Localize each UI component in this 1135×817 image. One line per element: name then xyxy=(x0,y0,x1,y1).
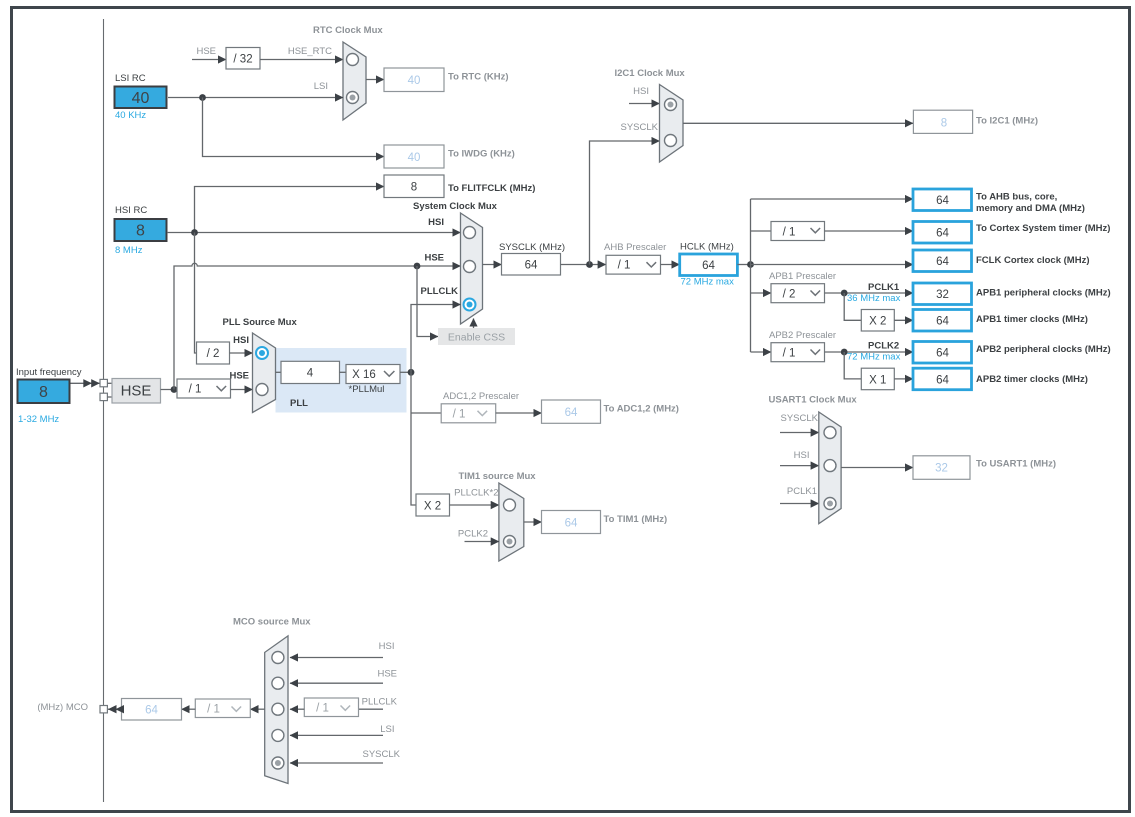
dropdown APB2 /1 xyxy=(771,343,825,362)
wire X1 to APB2 timer box xyxy=(894,378,913,380)
svg-text:APB1 Prescaler: APB1 Prescaler xyxy=(769,271,836,282)
svg-text:(MHz) MCO: (MHz) MCO xyxy=(37,702,88,713)
svg-text:4: 4 xyxy=(307,368,314,380)
svg-text:8: 8 xyxy=(39,384,48,401)
wire SYSCLK stub xyxy=(780,432,819,434)
wire HSI down to PLL /2 xyxy=(195,233,197,354)
radio TIM1 PLLCLK*2 xyxy=(504,499,516,511)
svg-text:1-32 MHz: 1-32 MHz xyxy=(18,414,59,425)
wire HSI to System Clock Mux xyxy=(167,232,461,234)
svg-text:*PLLMul: *PLLMul xyxy=(349,384,385,395)
svg-text:8: 8 xyxy=(136,223,145,240)
wire PCLK1 down to X2 xyxy=(844,293,861,320)
wire APB1 prescaler to PCLK1 box xyxy=(825,292,914,294)
svg-text:PCLK1: PCLK1 xyxy=(868,282,900,293)
wire /1 to MCO mux (leftward) xyxy=(290,708,304,710)
dropdown MCO /1 (disabled) xyxy=(195,699,250,718)
wire to APB2 prescaler xyxy=(751,351,772,353)
source box LSI 40 xyxy=(115,87,167,109)
mux MCO source Mux (mirrored) xyxy=(265,636,288,784)
svg-text:To RTC (KHz): To RTC (KHz) xyxy=(448,72,509,83)
svg-text:HSI: HSI xyxy=(428,217,444,228)
svg-text:USART1 Clock Mux: USART1 Clock Mux xyxy=(769,395,858,406)
svg-text:32: 32 xyxy=(935,463,948,475)
wire LSI to IWDG xyxy=(203,98,385,157)
svg-text:LSI: LSI xyxy=(314,81,328,92)
wire /32 to RTC mux xyxy=(260,59,343,61)
mux I2C1 Clock Mux xyxy=(660,85,684,163)
box APB1 peripheral value 32 xyxy=(913,283,972,305)
svg-text:HSE: HSE xyxy=(229,371,249,382)
svg-text:APB2 Prescaler: APB2 Prescaler xyxy=(769,330,836,341)
mux System Clock Mux xyxy=(461,213,483,324)
box PLL input value 4 xyxy=(281,361,340,383)
svg-text:X 1: X 1 xyxy=(869,375,886,387)
wire PLL mux to PLLMul input box xyxy=(276,371,282,373)
box Cortex timer value 64 xyxy=(913,222,972,244)
wire branch to ADC prescaler xyxy=(411,412,441,414)
box To USART1 value 32 xyxy=(913,456,970,480)
dropdown PLLMul X16 xyxy=(346,365,400,384)
wire HCLK to rail xyxy=(737,264,750,266)
radio sysmux HSI xyxy=(464,227,476,239)
radio sysmux PLLCLK (selected blue) xyxy=(464,299,476,311)
svg-text:64: 64 xyxy=(936,256,949,268)
svg-text:RTC Clock Mux: RTC Clock Mux xyxy=(313,25,383,36)
svg-text:APB2 peripheral clocks (MHz): APB2 peripheral clocks (MHz) xyxy=(976,344,1111,355)
node HCLK junction xyxy=(747,261,754,268)
svg-text:To IWDG (KHz): To IWDG (KHz) xyxy=(448,149,515,160)
dropdown Cortex /1 xyxy=(771,222,825,241)
multiplier X1 box (APB2 timers) xyxy=(861,368,894,390)
dropdown HSE /1 xyxy=(177,379,231,398)
wire X2 to APB1 timer box xyxy=(894,319,913,321)
svg-text:HSI: HSI xyxy=(233,335,249,346)
box To I2C1 value 8 xyxy=(913,110,972,133)
svg-text:64: 64 xyxy=(145,705,158,717)
wire HSI to FLITFCLK xyxy=(195,187,385,233)
svg-text:HSI RC: HSI RC xyxy=(115,205,147,216)
svg-text:HSI: HSI xyxy=(633,86,649,97)
pin square OSC_OUT xyxy=(100,393,107,400)
svg-text:X 16: X 16 xyxy=(352,369,376,381)
svg-text:PLL: PLL xyxy=(290,398,308,409)
multiplier X2 box xyxy=(416,494,450,516)
svg-text:HSE: HSE xyxy=(377,669,397,680)
svg-text:APB1 timer clocks (MHz): APB1 timer clocks (MHz) xyxy=(976,314,1088,325)
svg-text:SYSCLK: SYSCLK xyxy=(781,413,819,424)
wire USART1 out xyxy=(841,467,913,469)
radio USART1 SYSCLK xyxy=(824,427,836,439)
wire PLL output down-rail to X2 xyxy=(411,372,416,505)
radio USART1 HSI xyxy=(824,460,836,472)
wire HSE stub to /32 xyxy=(192,59,226,61)
svg-text:memory and DMA (MHz): memory and DMA (MHz) xyxy=(976,203,1085,214)
svg-text:PLLCLK: PLLCLK xyxy=(362,697,398,708)
svg-text:HSE: HSE xyxy=(424,253,444,264)
radio MCO LSI xyxy=(272,729,284,741)
svg-text:64: 64 xyxy=(565,407,578,419)
svg-text:64: 64 xyxy=(565,518,578,530)
svg-text:TIM1 source Mux: TIM1 source Mux xyxy=(459,471,537,482)
wire HSI stub xyxy=(780,465,819,467)
svg-text:System Clock Mux: System Clock Mux xyxy=(413,201,498,212)
wire LSI to RTC mux xyxy=(168,97,343,99)
box APB2 peripheral value 64 xyxy=(913,342,972,364)
svg-text:72 MHz max: 72 MHz max xyxy=(847,352,901,363)
svg-text:SYSCLK: SYSCLK xyxy=(363,749,401,760)
svg-text:/ 2: / 2 xyxy=(207,348,220,360)
wire SYSCLK stub (leftward) xyxy=(290,762,383,764)
svg-text:HSE: HSE xyxy=(196,46,216,57)
wire PCLK2 down to X1 xyxy=(844,352,861,379)
radio I2C1 SYSCLK xyxy=(665,135,677,147)
node PLL output xyxy=(408,369,415,376)
radio I2C1 HSI (selected) xyxy=(665,99,677,111)
wire I2C1 out xyxy=(683,122,913,124)
svg-text:HSE_RTC: HSE_RTC xyxy=(288,46,332,57)
svg-text:FCLK Cortex clock (MHz): FCLK Cortex clock (MHz) xyxy=(976,255,1089,266)
svg-text:64: 64 xyxy=(936,228,949,240)
node PCLK1 junction xyxy=(841,290,848,297)
svg-text:72 MHz max: 72 MHz max xyxy=(681,277,735,288)
PLL panel xyxy=(276,348,407,413)
svg-text:MCO source Mux: MCO source Mux xyxy=(233,617,311,628)
svg-text:/ 2: / 2 xyxy=(783,289,796,301)
node PCLK2 junction xyxy=(841,349,848,356)
node HSE junction xyxy=(171,386,178,393)
dropdown PLLCLK /1 (disabled) xyxy=(304,698,358,717)
wire to AHB bus box xyxy=(751,198,914,200)
svg-text:To ADC1,2 (MHz): To ADC1,2 (MHz) xyxy=(604,404,679,415)
wire input to pin (double arrow) xyxy=(71,382,100,384)
svg-text:To FLITFCLK (MHz): To FLITFCLK (MHz) xyxy=(448,183,535,194)
wire PLLCLK up to System Clock Mux xyxy=(411,305,461,373)
wire MCO box to pin (double arrow leftward) xyxy=(108,708,122,710)
wire to APB1 prescaler xyxy=(751,292,772,294)
node HSE-CSS junction xyxy=(414,263,421,270)
box APB2 timer value 64 xyxy=(913,368,972,390)
svg-text:64: 64 xyxy=(525,260,538,272)
box To FLITFCLK value 8 xyxy=(384,175,444,198)
wire SYSCLK up to I2C1 mux xyxy=(590,141,660,265)
box To TIM1 value 64 xyxy=(542,511,601,534)
radio MCO SYSCLK (selected) xyxy=(272,757,284,769)
mux PLL Source Mux xyxy=(253,333,276,413)
radio MCO HSI xyxy=(272,652,284,664)
pin square MCO xyxy=(100,706,107,713)
divider /2 box xyxy=(197,342,230,364)
svg-text:To Cortex System timer (MHz): To Cortex System timer (MHz) xyxy=(976,223,1110,234)
wire HSI stub (leftward) xyxy=(290,657,383,659)
wire Enable CSS up-arrow into mux xyxy=(473,319,475,329)
wire to Cortex prescaler xyxy=(751,230,772,232)
dropdown APB1 /2 xyxy=(771,284,825,303)
radio MCO HSE xyxy=(272,677,284,689)
svg-text:64: 64 xyxy=(936,316,949,328)
svg-text:/ 1: / 1 xyxy=(783,348,796,360)
wire /2 to PLL mux xyxy=(230,352,253,354)
divider /32 box xyxy=(226,48,260,70)
wire sysmux out xyxy=(483,264,502,266)
svg-text:64: 64 xyxy=(936,375,949,387)
wire to FCLK box xyxy=(751,264,914,266)
svg-text:8: 8 xyxy=(941,117,947,129)
wire APB2 prescaler to PCLK2 box xyxy=(825,351,914,353)
svg-text:Input frequency: Input frequency xyxy=(16,367,82,378)
svg-text:X 2: X 2 xyxy=(424,501,441,513)
svg-text:/ 1: / 1 xyxy=(618,260,631,272)
multiplier X2 box (APB1 timers) xyxy=(861,310,894,332)
svg-text:64: 64 xyxy=(702,260,715,272)
wire HSE junction to Enable CSS xyxy=(417,266,438,337)
svg-text:Enable CSS: Enable CSS xyxy=(448,332,505,344)
radio RTC input HSE_RTC xyxy=(347,54,359,66)
wire PLLCLK stub to /1 xyxy=(359,708,384,710)
svg-text:40: 40 xyxy=(132,90,150,107)
svg-text:To I2C1 (MHz): To I2C1 (MHz) xyxy=(976,116,1038,127)
radio USART1 PCLK1 (selected) xyxy=(824,498,836,510)
wire X2 to TIM1 mux xyxy=(450,504,499,506)
HSE block xyxy=(112,379,161,404)
wire TIM1 mux out xyxy=(524,521,542,523)
svg-text:64: 64 xyxy=(936,195,949,207)
dropdown ADC /1 (disabled) xyxy=(441,404,496,423)
box HCLK value 64 xyxy=(680,254,738,276)
box To IWDG value 40 xyxy=(384,145,444,168)
wire pin stubs to HSE box xyxy=(107,382,112,384)
svg-text:ADC1,2 Prescaler: ADC1,2 Prescaler xyxy=(443,391,519,402)
box To ADC value 64 xyxy=(542,400,601,423)
radio PLL HSE xyxy=(256,384,268,396)
box FCLK value 64 xyxy=(913,250,972,272)
source box input 8 xyxy=(18,380,70,404)
wire LSI stub (leftward) xyxy=(290,734,383,736)
svg-text:PLLCLK*2: PLLCLK*2 xyxy=(454,488,498,499)
box To RTC value 40 xyxy=(384,68,444,92)
svg-text:/ 1: / 1 xyxy=(207,704,220,716)
svg-text:8 MHz: 8 MHz xyxy=(115,245,143,256)
radio sysmux HSE xyxy=(464,261,476,273)
wire PCLK2 stub xyxy=(465,541,499,543)
wire HSI stub to I2C1 mux xyxy=(629,103,660,105)
wire HSE rail up to System Clock Mux (with bump over HSI rail) xyxy=(174,263,461,389)
svg-text:LSI RC: LSI RC xyxy=(115,73,146,84)
wire HCLK rail vertical xyxy=(750,199,752,352)
node LSI junction xyxy=(199,94,206,101)
svg-text:APB1 peripheral clocks (MHz): APB1 peripheral clocks (MHz) xyxy=(976,288,1111,299)
svg-text:PCLK2: PCLK2 xyxy=(868,341,899,352)
radio RTC input LSI (selected) xyxy=(347,92,359,104)
wire AHB to HCLK xyxy=(661,264,680,266)
svg-text:SYSCLK (MHz): SYSCLK (MHz) xyxy=(499,242,565,253)
svg-text:PCLK1: PCLK1 xyxy=(787,486,817,497)
svg-text:HSI: HSI xyxy=(794,450,810,461)
box MCO value 64 xyxy=(122,699,182,721)
radio TIM1 PCLK2 (selected) xyxy=(504,536,516,548)
wire RTC mux output xyxy=(366,79,384,81)
svg-text:/ 1: / 1 xyxy=(783,227,796,239)
wire 4 to X16 xyxy=(340,371,347,373)
svg-text:40 KHz: 40 KHz xyxy=(115,110,146,121)
svg-text:LSI: LSI xyxy=(380,724,394,735)
svg-text:X 2: X 2 xyxy=(869,316,886,328)
radio PLL HSI (selected blue) xyxy=(256,347,268,359)
left vertical rail xyxy=(103,19,105,802)
wire HSE out to /1 xyxy=(161,389,178,391)
box APB1 timer value 64 xyxy=(913,310,972,332)
svg-text:40: 40 xyxy=(408,152,421,164)
svg-text:HSI: HSI xyxy=(379,641,395,652)
wire /1 to MCO value box (leftward) xyxy=(182,708,196,710)
node HSI junction xyxy=(191,229,198,236)
svg-text:PLL Source Mux: PLL Source Mux xyxy=(223,317,298,328)
svg-text:40: 40 xyxy=(408,75,421,87)
wire ADC prescaler to value box xyxy=(496,412,542,414)
wire MCO mux out to /1 (leftward) xyxy=(250,708,264,710)
wire /1 to PLL mux xyxy=(231,389,253,391)
node SYSCLK junction xyxy=(586,261,593,268)
svg-text:HCLK (MHz): HCLK (MHz) xyxy=(680,242,734,253)
wire Cortex prescaler to box xyxy=(825,230,914,232)
pin square OSC_IN xyxy=(100,379,107,386)
svg-text:32: 32 xyxy=(936,289,949,301)
svg-text:8: 8 xyxy=(411,182,417,194)
svg-text:To TIM1 (MHz): To TIM1 (MHz) xyxy=(604,514,668,525)
svg-text:HSE: HSE xyxy=(121,383,152,400)
svg-text:64: 64 xyxy=(936,348,949,360)
mux TIM1 source Mux xyxy=(499,483,524,561)
svg-text:APB2 timer clocks (MHz): APB2 timer clocks (MHz) xyxy=(976,374,1088,385)
dropdown AHB /1 xyxy=(606,255,661,274)
svg-text:To AHB bus, core,: To AHB bus, core, xyxy=(976,192,1057,203)
svg-text:/ 1: / 1 xyxy=(453,409,466,421)
svg-text:PLLCLK: PLLCLK xyxy=(421,286,459,297)
svg-text:/ 1: / 1 xyxy=(189,384,202,396)
svg-text:SYSCLK: SYSCLK xyxy=(621,122,659,133)
svg-text:/ 32: / 32 xyxy=(233,54,252,66)
svg-text:PCLK2: PCLK2 xyxy=(458,529,488,540)
wire SYSCLK to AHB prescaler xyxy=(561,264,606,266)
source box HSI 8 xyxy=(115,219,167,241)
svg-text:36 MHz max: 36 MHz max xyxy=(847,293,901,304)
radio MCO PLLCLK xyxy=(272,703,284,715)
wire HSE stub (leftward) xyxy=(290,682,383,684)
svg-text:AHB Prescaler: AHB Prescaler xyxy=(604,242,666,253)
svg-text:I2C1 Clock Mux: I2C1 Clock Mux xyxy=(615,68,686,79)
svg-text:/ 1: / 1 xyxy=(316,703,329,715)
wire PCLK1 stub xyxy=(780,503,819,505)
box SYSCLK value 64 xyxy=(502,254,561,276)
Enable CSS box xyxy=(438,328,515,345)
mux RTC Clock Mux xyxy=(343,42,366,120)
mux USART1 Clock Mux xyxy=(819,412,841,524)
svg-text:To USART1 (MHz): To USART1 (MHz) xyxy=(976,459,1056,470)
box AHB bus value 64 xyxy=(913,189,972,211)
wire X16 to PLL output node xyxy=(400,371,411,373)
